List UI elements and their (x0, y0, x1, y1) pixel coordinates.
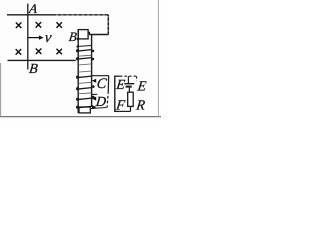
svg-text:R: R (134, 98, 146, 114)
svg-text:E: E (136, 79, 148, 95)
svg-text:E: E (114, 77, 126, 93)
svg-text:B: B (28, 61, 39, 77)
svg-text:B: B (68, 29, 78, 44)
svg-text:v: v (44, 30, 53, 46)
svg-text:A: A (27, 1, 38, 16)
svg-text:C: C (96, 76, 108, 92)
